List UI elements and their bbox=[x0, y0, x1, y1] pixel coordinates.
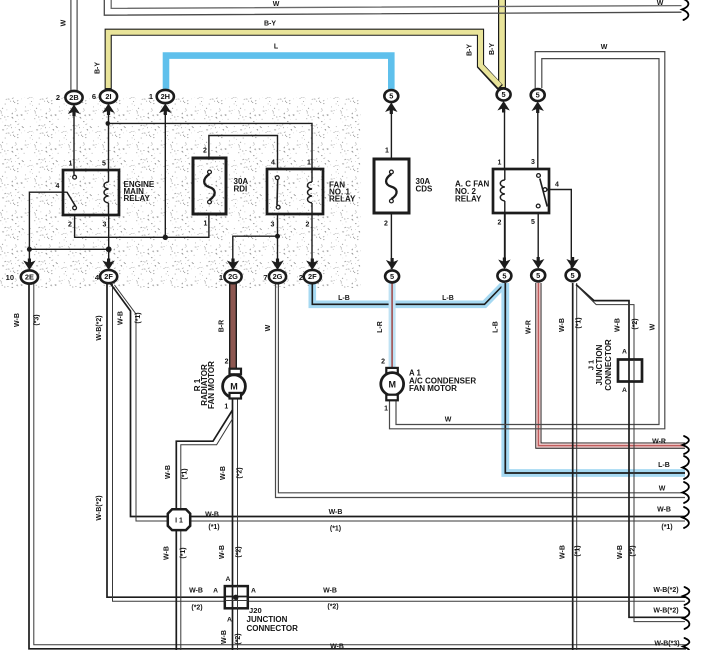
svg-text:A: A bbox=[226, 576, 231, 583]
svg-text:2: 2 bbox=[306, 222, 310, 229]
svg-text:2: 2 bbox=[299, 273, 303, 282]
svg-text:A: A bbox=[622, 349, 627, 356]
svg-text:2: 2 bbox=[203, 148, 207, 155]
svg-text:W-B(*3): W-B(*3) bbox=[654, 641, 679, 648]
brace W-R bbox=[683, 436, 689, 454]
wire from connector 2H down to L-wire junction bbox=[164, 103, 166, 237]
svg-text:FAN MOTOR: FAN MOTOR bbox=[409, 384, 457, 393]
brace W bbox=[683, 482, 689, 503]
svg-text:A: A bbox=[213, 588, 218, 595]
connector 5 (L wire, 30A CDS) bbox=[384, 90, 398, 102]
wire A/C relay pin3 up to W oval 5 bbox=[537, 104, 539, 169]
connector 2F(4) bbox=[102, 259, 114, 271]
svg-text:2: 2 bbox=[225, 359, 229, 366]
svg-text:W-B(*2): W-B(*2) bbox=[96, 495, 103, 520]
svg-text:5: 5 bbox=[536, 91, 540, 100]
svg-text:W-B: W-B bbox=[657, 507, 671, 514]
svg-text:M: M bbox=[388, 379, 396, 389]
svg-text:(*2): (*2) bbox=[235, 633, 242, 644]
connector 2H bbox=[157, 90, 174, 103]
svg-text:1: 1 bbox=[385, 148, 389, 155]
svg-text:RELAY: RELAY bbox=[455, 195, 482, 204]
wire fan relay pin2 down to connector 2F(2) bbox=[311, 215, 313, 270]
svg-text:2G: 2G bbox=[273, 272, 283, 281]
wire from connector 2B to engine main relay pin 1 bbox=[73, 103, 75, 175]
svg-text:2: 2 bbox=[56, 93, 60, 102]
svg-text:(*1): (*1) bbox=[208, 524, 219, 531]
svg-text:RDI: RDI bbox=[234, 185, 248, 194]
svg-text:W-B: W-B bbox=[219, 545, 226, 559]
svg-text:B-R: B-R bbox=[219, 320, 226, 332]
wire B-R from connector 2G(1) down to radiator fan motor pin 2 bbox=[229, 283, 237, 369]
wire W loop: A/C condenser motor pin1 right, up, across to A/C relay pin3 oval bbox=[396, 59, 659, 425]
svg-text:L-B: L-B bbox=[658, 462, 670, 469]
svg-text:W-B: W-B bbox=[615, 318, 622, 332]
connector 5 (L-R to A1 motor) bbox=[386, 258, 398, 270]
svg-text:JUNCTION: JUNCTION bbox=[595, 344, 604, 385]
svg-text:10: 10 bbox=[6, 273, 14, 282]
svg-text:1: 1 bbox=[69, 161, 73, 168]
svg-text:(*2): (*2) bbox=[236, 546, 243, 557]
svg-text:2B: 2B bbox=[69, 93, 78, 102]
svg-text:W-B: W-B bbox=[617, 545, 624, 559]
wire engine relay pin2 down, across, up to 30A RDI pin 1 bbox=[75, 214, 209, 237]
engine relay switch contact bbox=[73, 175, 77, 179]
wire W-B(*2) from J20 right to right edge bbox=[248, 596, 685, 598]
wire junction down to connector 2E bbox=[28, 249, 30, 270]
svg-text:(*1): (*1) bbox=[135, 312, 142, 323]
svg-text:W-B: W-B bbox=[323, 588, 337, 595]
svg-text:2G: 2G bbox=[228, 272, 238, 281]
wire L-B from A/C relay pin2 oval down and out right edge bbox=[505, 283, 685, 473]
svg-text:L-R: L-R bbox=[377, 321, 384, 333]
wire B-Y from connector 2I up and across, diagonal join bbox=[108, 32, 500, 89]
wire L-R from oval 5 down to A/C condenser fan motor pin 2 bbox=[389, 283, 396, 368]
engine relay coil bbox=[108, 170, 110, 182]
connector 5 (W-R) bbox=[532, 257, 544, 269]
svg-text:2F: 2F bbox=[104, 272, 113, 281]
svg-text:5: 5 bbox=[502, 90, 506, 99]
svg-text:4: 4 bbox=[271, 160, 275, 167]
svg-text:W-B: W-B bbox=[164, 546, 171, 560]
connector 2G(1) bbox=[227, 259, 239, 271]
junction dot right bbox=[106, 246, 112, 252]
svg-text:W-B(*2): W-B(*2) bbox=[653, 587, 678, 594]
junction dot left bbox=[27, 247, 32, 252]
brace W-B(*3) bbox=[683, 638, 689, 650]
connector 2F(2) bbox=[306, 259, 318, 271]
wire engine relay pin4 left, down, across to pin3 wire bbox=[29, 192, 108, 249]
wire W at top left to top right brace bbox=[104, 0, 681, 15]
wire W-B(*1) from A/C relay pin4 oval down to page bottom bbox=[572, 283, 574, 650]
svg-text:W-R: W-R bbox=[526, 320, 533, 334]
svg-text:W: W bbox=[601, 44, 608, 51]
R1 radiator fan motor bbox=[230, 369, 242, 375]
svg-text:3: 3 bbox=[531, 159, 535, 166]
svg-text:(*1): (*1) bbox=[182, 468, 189, 479]
svg-text:W-B: W-B bbox=[14, 313, 21, 327]
stippled relay-box region background bbox=[0, 97, 361, 288]
wire W from top edge down to connector 2B bbox=[70, 0, 72, 90]
A.C fan no.2 relay box bbox=[493, 169, 549, 213]
svg-text:2: 2 bbox=[68, 222, 72, 229]
junction dot at 2H / horizontal bbox=[163, 235, 168, 240]
svg-text:(*1): (*1) bbox=[330, 526, 341, 533]
junction dot fan pin3 bbox=[275, 234, 280, 239]
connector 5 (W-B to pin4) bbox=[566, 257, 578, 269]
svg-text:B-Y: B-Y bbox=[489, 43, 496, 55]
svg-text:5: 5 bbox=[102, 161, 106, 168]
wire W-B(*1) from connector 2F(4) diagonal down to I1 left bbox=[110, 283, 169, 517]
30A RDI fuse element bbox=[208, 170, 212, 174]
svg-text:CONNECTOR: CONNECTOR bbox=[604, 339, 613, 391]
svg-text:(*1): (*1) bbox=[575, 545, 582, 556]
svg-text:5: 5 bbox=[571, 271, 575, 280]
svg-text:B-Y: B-Y bbox=[467, 44, 474, 56]
fan no.1 relay box bbox=[267, 169, 323, 214]
svg-text:5: 5 bbox=[390, 272, 394, 281]
svg-text:1: 1 bbox=[307, 160, 311, 167]
svg-text:7: 7 bbox=[263, 273, 267, 282]
svg-text:L-B: L-B bbox=[442, 295, 454, 302]
svg-text:(*2): (*2) bbox=[191, 605, 202, 612]
svg-text:CONNECTOR: CONNECTOR bbox=[247, 624, 299, 633]
svg-text:(*2): (*2) bbox=[327, 604, 338, 611]
svg-text:6: 6 bbox=[92, 92, 96, 101]
30A RDI fuse box bbox=[193, 158, 226, 214]
svg-text:W: W bbox=[61, 19, 68, 26]
wire L-B from connector 2F(2) to A/C fan relay pin2 oval bbox=[312, 283, 503, 304]
connector 5 (L-B) bbox=[498, 258, 510, 270]
svg-text:W-B(*2): W-B(*2) bbox=[653, 608, 678, 615]
wire W-B(*2) from A/C relay pin4 oval diagonal to J1 top bbox=[576, 285, 629, 382]
wire W-R from A/C relay pin5 oval down and out right edge bbox=[538, 283, 685, 446]
30A CDS fuse box bbox=[374, 159, 409, 213]
J20 junction connector box bbox=[225, 586, 248, 608]
wire 30A RDI pin2 up, across, down to fan relay pin 4 bbox=[209, 136, 278, 170]
svg-text:W-B(*2): W-B(*2) bbox=[96, 315, 103, 340]
svg-text:W-B: W-B bbox=[560, 545, 567, 559]
J1 junction connector box bbox=[618, 360, 642, 382]
svg-text:W-B: W-B bbox=[205, 511, 219, 518]
svg-text:B-Y: B-Y bbox=[264, 21, 276, 28]
brace W-B(*2) J1 bbox=[683, 608, 689, 630]
wire fan relay pin3 down with branch to 2G(1) and 2G(7) bbox=[277, 215, 279, 270]
wire W-B(*2) radiator motor pin1 down through J20 to page bottom bbox=[232, 399, 234, 650]
svg-text:CDS: CDS bbox=[416, 185, 434, 194]
svg-text:5: 5 bbox=[536, 271, 540, 280]
svg-text:W: W bbox=[273, 1, 280, 8]
svg-text:W-B: W-B bbox=[220, 466, 227, 480]
wire A/C relay pin4 right then down to oval 5 bbox=[546, 190, 571, 269]
svg-text:JUNCTION: JUNCTION bbox=[247, 615, 288, 624]
svg-text:3: 3 bbox=[103, 222, 107, 229]
svg-text:W-B: W-B bbox=[329, 509, 343, 516]
wire W-B(*1) from I1 right to right edge bbox=[190, 516, 685, 518]
wire 30A CDS pin1 up to oval 5 bbox=[390, 103, 392, 159]
I1 junction connector octagon bbox=[168, 509, 190, 530]
svg-text:2H: 2H bbox=[161, 92, 170, 101]
wire 30A CDS pin2 down to oval 5 bbox=[390, 213, 392, 269]
svg-text:(*2): (*2) bbox=[630, 545, 637, 556]
svg-text:2E: 2E bbox=[25, 273, 34, 282]
svg-text:RELAY: RELAY bbox=[124, 194, 151, 203]
svg-text:1: 1 bbox=[204, 221, 208, 228]
svg-text:5: 5 bbox=[531, 219, 535, 226]
brace top W bbox=[682, 0, 688, 20]
svg-text:W-B: W-B bbox=[221, 630, 228, 644]
svg-text:1: 1 bbox=[224, 404, 228, 411]
connector 2G(7) bbox=[271, 259, 283, 271]
svg-text:2F: 2F bbox=[308, 272, 317, 281]
brace W-B(*2) J20 bbox=[683, 587, 689, 605]
A/C relay switch contact bbox=[537, 174, 541, 178]
svg-text:A: A bbox=[251, 588, 256, 595]
wire engine relay pin3 down to connector 2F(4) bbox=[108, 215, 110, 270]
svg-text:A: A bbox=[227, 617, 232, 624]
svg-text:(*2): (*2) bbox=[632, 318, 639, 329]
svg-text:L-B: L-B bbox=[493, 321, 500, 333]
svg-text:1: 1 bbox=[384, 406, 388, 413]
svg-text:M: M bbox=[230, 382, 238, 392]
svg-text:J20: J20 bbox=[249, 606, 262, 615]
svg-text:W-B: W-B bbox=[165, 465, 172, 479]
connector 2I bbox=[100, 90, 117, 103]
A/C relay coil bbox=[504, 169, 506, 180]
svg-text:(*1): (*1) bbox=[661, 524, 672, 531]
svg-text:B-Y: B-Y bbox=[95, 62, 102, 74]
svg-text:W: W bbox=[445, 417, 452, 424]
svg-text:3: 3 bbox=[271, 222, 275, 229]
svg-text:1: 1 bbox=[219, 273, 223, 282]
30A CDS fuse element bbox=[390, 170, 394, 174]
svg-text:4: 4 bbox=[555, 182, 559, 189]
wire W-B(*2) from J1 bottom down, out right edge bbox=[629, 381, 685, 617]
brace L-B bbox=[683, 456, 689, 479]
svg-text:I 1: I 1 bbox=[175, 517, 183, 524]
svg-text:(*3): (*3) bbox=[34, 314, 41, 325]
svg-text:2: 2 bbox=[381, 359, 385, 366]
junction dot on 2I wire bbox=[106, 121, 111, 126]
svg-text:W-B: W-B bbox=[559, 318, 566, 332]
wire from 2I junction across to fan no.1 relay pin 1 bbox=[108, 123, 312, 169]
svg-text:5: 5 bbox=[502, 271, 506, 280]
wire W-B(*2) from connector 2F(4) down to J20 left bbox=[107, 284, 225, 597]
svg-text:W: W bbox=[650, 323, 657, 330]
svg-text:2: 2 bbox=[498, 220, 502, 227]
svg-text:4: 4 bbox=[56, 183, 60, 190]
wire A/C relay pin5 down to oval 5 bbox=[537, 213, 539, 268]
connector 5 (B-Y, A/C relay pin1) bbox=[497, 89, 511, 101]
wire W from connector 2G(7) down and out right edge bbox=[278, 284, 685, 493]
A1 a/c condenser fan motor bbox=[386, 368, 398, 374]
brace W-B(*1) bbox=[683, 507, 689, 528]
svg-text:W: W bbox=[659, 486, 666, 493]
fan relay coil bbox=[308, 182, 313, 203]
svg-text:1: 1 bbox=[498, 160, 502, 167]
svg-text:2I: 2I bbox=[105, 92, 111, 101]
wire A/C relay pin2 down to oval 5 bbox=[504, 213, 506, 268]
svg-text:(*1): (*1) bbox=[180, 547, 187, 558]
connector 5 (W loop, A/C relay pin3) bbox=[531, 89, 545, 101]
wire W-B(*1) radiator motor pin1 diagonal left down to I1 top bbox=[176, 410, 232, 510]
svg-text:W-B: W-B bbox=[118, 311, 125, 325]
svg-text:RELAY: RELAY bbox=[329, 195, 356, 204]
svg-text:1: 1 bbox=[149, 92, 153, 101]
svg-text:(*2): (*2) bbox=[237, 467, 244, 478]
svg-text:W-B: W-B bbox=[189, 588, 203, 595]
engine main relay box bbox=[63, 170, 119, 215]
svg-text:W-R: W-R bbox=[652, 439, 666, 446]
svg-text:2: 2 bbox=[384, 221, 388, 228]
wire W-B(*3) from connector 2E down left side to bottom right bbox=[29, 284, 686, 649]
connector 2E bbox=[23, 259, 35, 271]
svg-text:W: W bbox=[265, 324, 272, 331]
svg-text:FAN MOTOR: FAN MOTOR bbox=[207, 361, 216, 409]
svg-text:W-B: W-B bbox=[330, 644, 344, 650]
wire L (blue) from connector 2H up across to connector 5 bbox=[166, 56, 391, 89]
connector 2B bbox=[65, 91, 82, 104]
svg-text:W: W bbox=[657, 0, 664, 7]
wire from connector 2I to engine main relay pin 5 (coil) bbox=[108, 103, 110, 170]
wire A/C relay pin1 up to B-Y oval 5 bbox=[504, 103, 506, 169]
wire W-B(*1) from I1 bottom to page bottom bbox=[175, 530, 177, 650]
fan relay switch contact bbox=[275, 176, 279, 180]
svg-text:5: 5 bbox=[389, 92, 393, 101]
svg-text:(*1): (*1) bbox=[576, 317, 583, 328]
wire B-Y vertical from top edge to connector 5 bbox=[498, 0, 506, 88]
svg-text:L-B: L-B bbox=[338, 295, 350, 302]
svg-text:L: L bbox=[274, 44, 279, 51]
svg-text:A: A bbox=[622, 387, 627, 394]
